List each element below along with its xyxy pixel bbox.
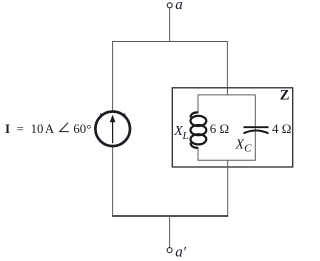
svg-text:A: A bbox=[45, 122, 55, 136]
wire left branch upper (top rail to source) bbox=[112, 41, 114, 111]
wire from bottom rail down to terminal a' bbox=[169, 216, 171, 247]
wire from terminal a down to top rail bbox=[169, 8, 171, 41]
svg-text:I: I bbox=[5, 121, 10, 136]
svg-text:a′: a′ bbox=[175, 244, 187, 260]
svg-text:L: L bbox=[182, 130, 189, 142]
current source I bbox=[95, 112, 130, 147]
inner loop left wire lower bbox=[197, 148, 199, 160]
svg-text:Z: Z bbox=[280, 88, 290, 104]
svg-text:C: C bbox=[244, 142, 252, 154]
impedance box Z bbox=[172, 88, 292, 167]
inner loop left wire upper bbox=[197, 95, 199, 113]
terminal a bbox=[167, 3, 172, 8]
inner loop right wire bbox=[254, 95, 256, 160]
svg-text:10: 10 bbox=[31, 122, 44, 136]
svg-text:6 Ω: 6 Ω bbox=[210, 121, 229, 136]
inductor XL coil bbox=[191, 112, 207, 148]
angle symbol bbox=[60, 123, 69, 132]
svg-text:a: a bbox=[175, 0, 183, 13]
capacitor XC bbox=[244, 127, 269, 133]
wire right branch (top rail down into box Z) bbox=[226, 41, 228, 95]
inner loop top wire bbox=[198, 94, 256, 96]
wire top rail bbox=[112, 41, 228, 43]
inner loop bottom wire bbox=[198, 159, 256, 161]
svg-text:X: X bbox=[235, 137, 245, 152]
wire bottom rail bbox=[112, 215, 228, 217]
svg-text:=: = bbox=[17, 122, 24, 136]
terminal a' bbox=[167, 248, 172, 253]
svg-text:60°: 60° bbox=[73, 122, 91, 136]
wire left branch lower (source to bottom rail) bbox=[112, 147, 114, 217]
wire from inner loop bottom down to bottom rail bbox=[227, 160, 229, 216]
svg-text:4 Ω: 4 Ω bbox=[272, 121, 291, 136]
